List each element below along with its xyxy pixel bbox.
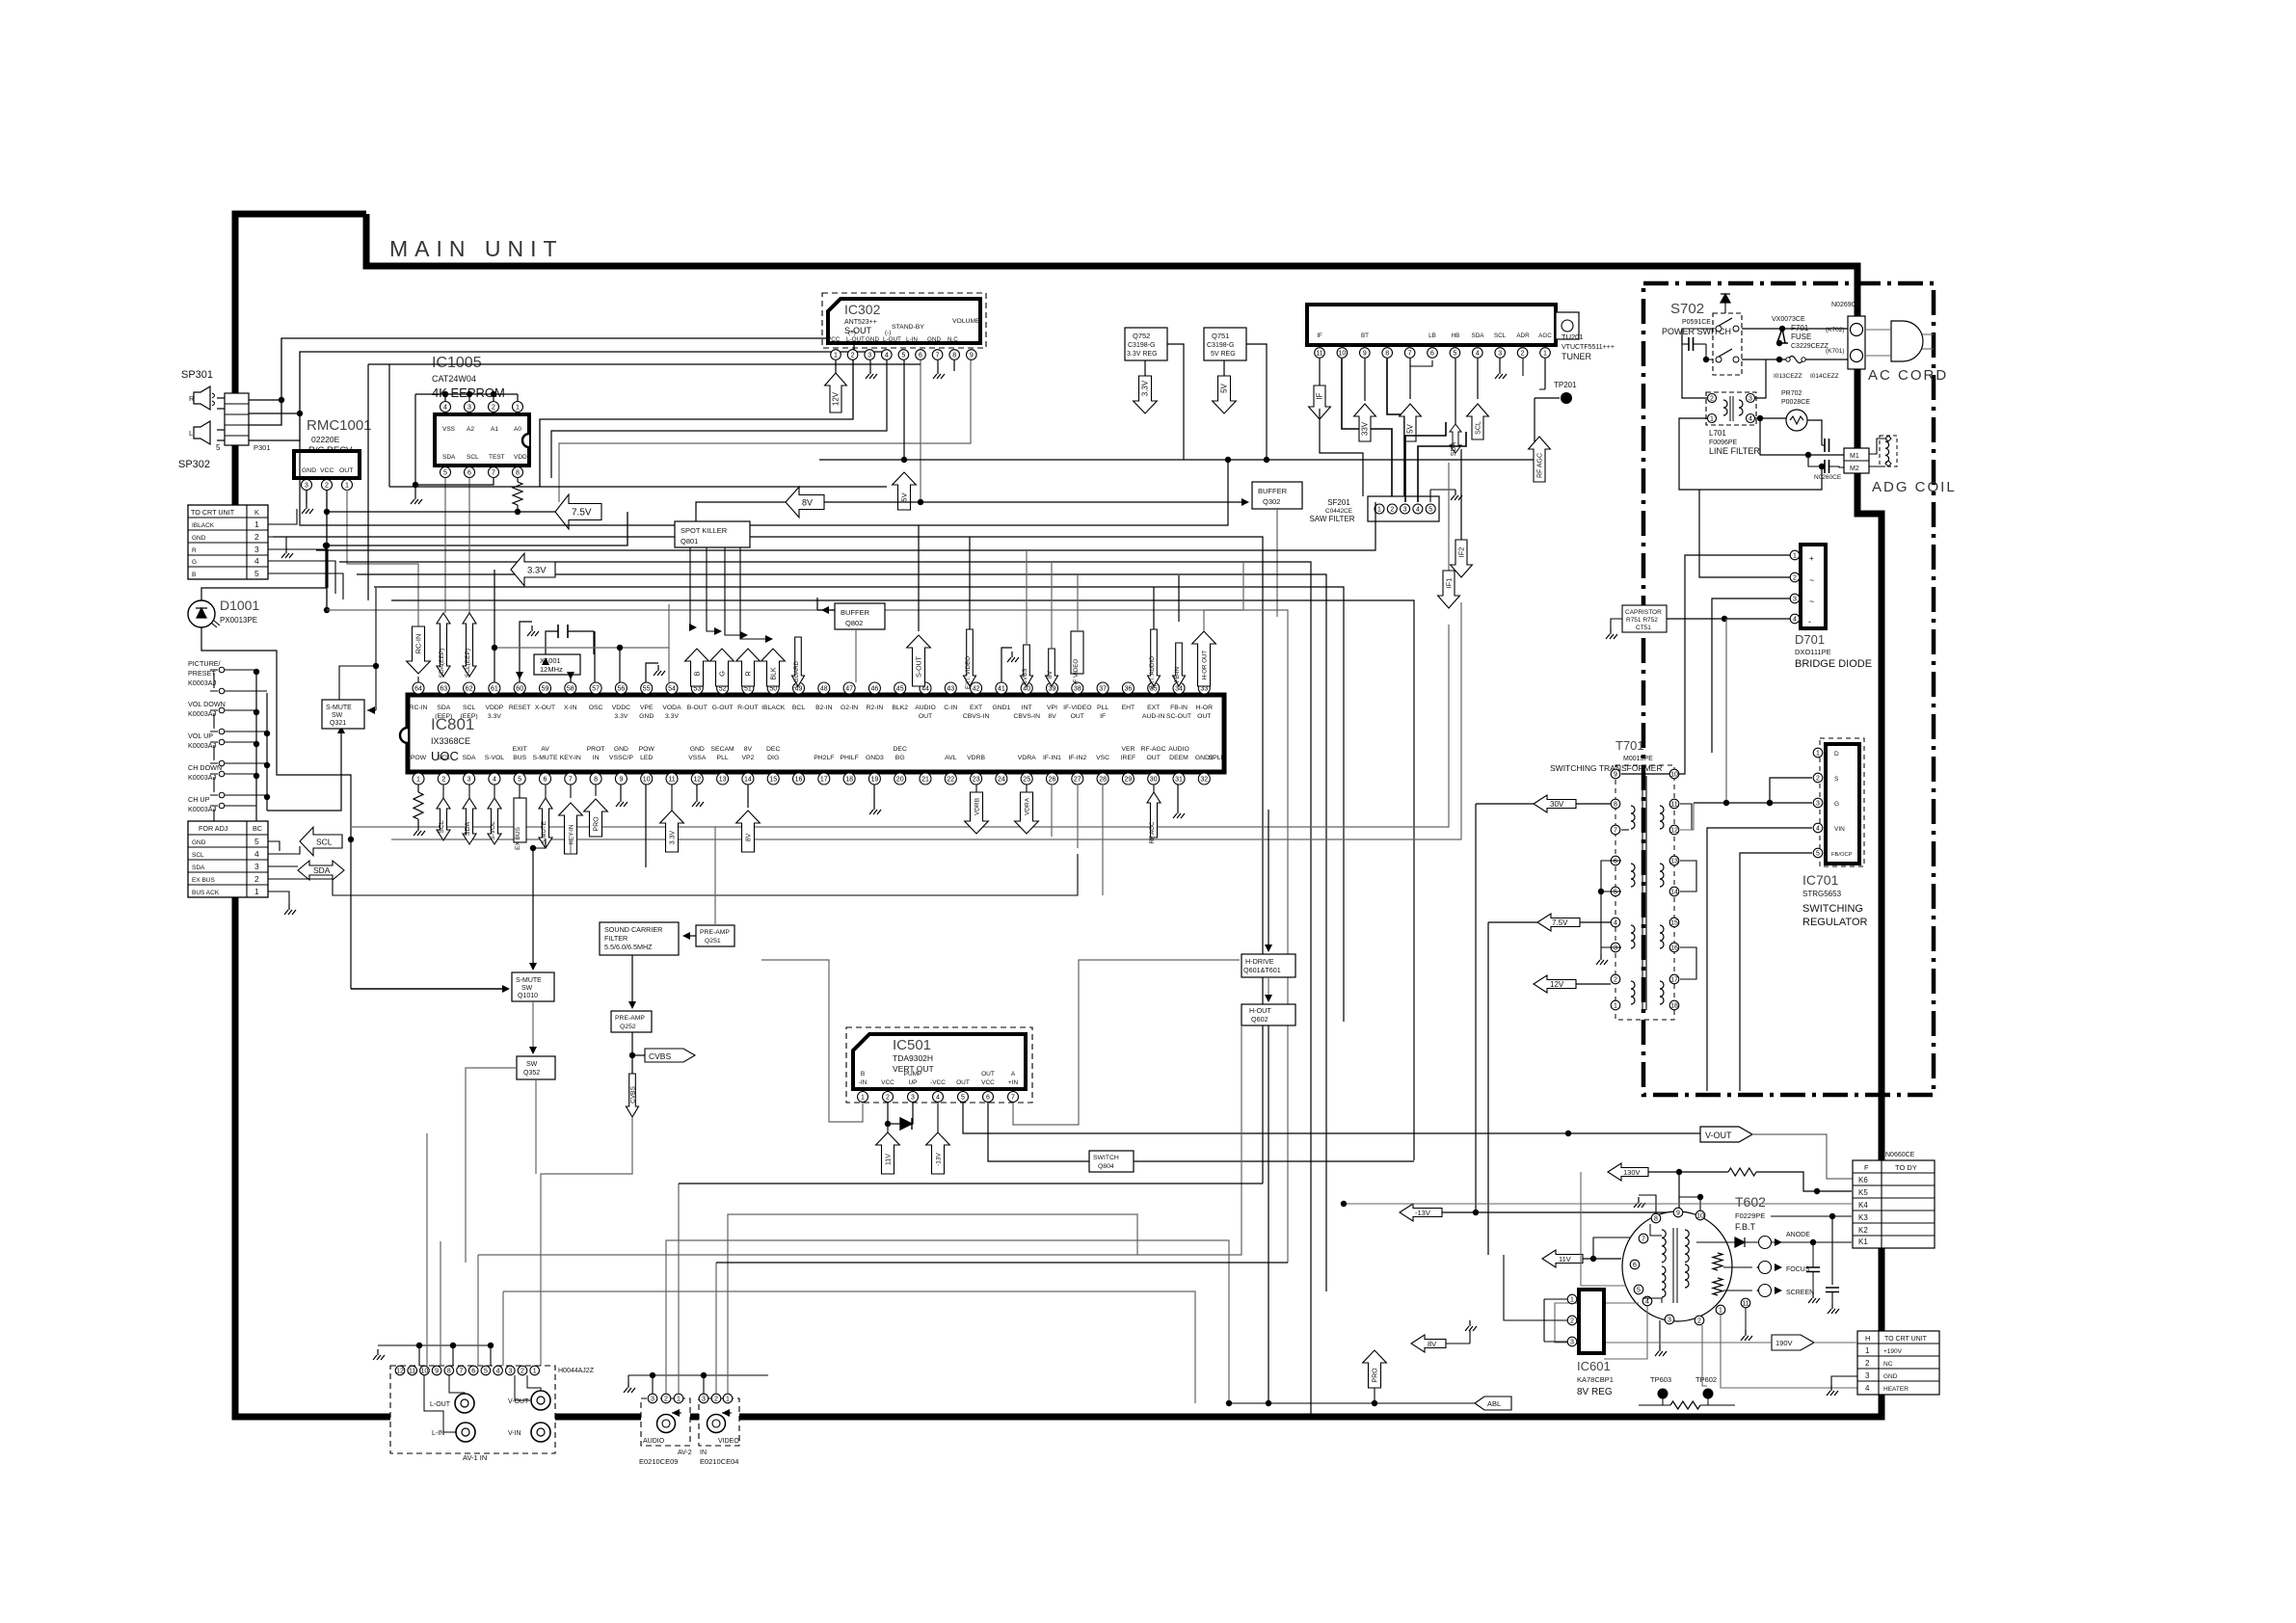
svg-text:FILTER: FILTER	[604, 934, 627, 943]
pin 3 IC1005	[465, 402, 475, 412]
wire ADG coil to M1	[1869, 439, 1885, 454]
wire RESET loop	[520, 622, 532, 682]
wires AV-1 pins to jacks	[424, 1375, 456, 1432]
svg-text:R: R	[192, 547, 197, 554]
svg-text:(EEP): (EEP)	[435, 713, 452, 720]
flag RF AGC tuner	[1529, 437, 1551, 482]
svg-text:KEY-IN: KEY-IN	[569, 824, 575, 844]
svg-text:10: 10	[1670, 771, 1678, 778]
svg-text:CH UP: CH UP	[188, 795, 210, 804]
crystal X1001	[534, 654, 580, 675]
svg-text:5: 5	[484, 1368, 488, 1374]
svg-text:6: 6	[1430, 350, 1434, 357]
svg-text:PR702: PR702	[1781, 390, 1802, 397]
svg-text:TP603: TP603	[1650, 1375, 1671, 1384]
svg-text:45: 45	[896, 685, 904, 692]
svg-text:1: 1	[1543, 350, 1547, 357]
svg-text:IF2: IF2	[1457, 547, 1466, 558]
svg-text:AC CORD: AC CORD	[1868, 367, 1948, 384]
svg-text:4: 4	[1645, 1298, 1649, 1305]
svg-text:ANT523++: ANT523++	[844, 319, 877, 326]
svg-text:5V REG: 5V REG	[1211, 351, 1236, 358]
svg-text:25: 25	[1023, 776, 1030, 783]
svg-text:AGC: AGC	[1538, 333, 1552, 339]
svg-text:D701: D701	[1795, 632, 1825, 647]
wire H-DRIVE to H-OUT	[1268, 977, 1269, 998]
resistor pin1 POW	[417, 785, 419, 792]
svg-text:IBLACK: IBLACK	[192, 522, 215, 529]
svg-text:1: 1	[345, 482, 349, 489]
svg-text:VCC: VCC	[881, 1079, 894, 1086]
IC801 UOC microcontroller body	[408, 695, 1224, 772]
connector K TO CRT UNIT table	[188, 505, 268, 579]
wire IC302 pin9 left drop	[559, 355, 971, 502]
svg-text:2: 2	[664, 1396, 668, 1402]
svg-text:30: 30	[1150, 776, 1158, 783]
svg-text:7.5V: 7.5V	[1552, 918, 1568, 927]
svg-text:VSSC/P: VSSC/P	[609, 755, 633, 761]
svg-text:(EEP): (EEP)	[461, 713, 478, 720]
svg-text:CH DOWN: CH DOWN	[188, 763, 222, 772]
pin 6 IC1005	[465, 467, 475, 478]
svg-text:Q751: Q751	[1212, 332, 1229, 340]
svg-text:ADR: ADR	[1516, 333, 1530, 339]
wire IC1005 pin7 TEST down	[415, 478, 494, 485]
wire bus D y571	[316, 502, 1375, 550]
svg-text:63: 63	[440, 685, 447, 692]
svg-text:IF: IF	[1100, 713, 1106, 720]
svg-text:VDDC: VDDC	[612, 705, 630, 711]
svg-text:SP302: SP302	[178, 459, 210, 470]
svg-text:SCREEN: SCREEN	[1786, 1290, 1814, 1296]
svg-text:12: 12	[693, 776, 701, 783]
svg-text:CVBS: CVBS	[1022, 669, 1028, 685]
wire pin14 8V VP2 down	[747, 785, 749, 808]
flag EXT. AUDIO	[1148, 629, 1161, 686]
svg-text:8V: 8V	[744, 746, 753, 753]
svg-text:A2: A2	[467, 426, 474, 433]
svg-text:R2-IN: R2-IN	[867, 705, 884, 711]
wire 477 rail	[819, 398, 1535, 460]
svg-text:L-OUT: L-OUT	[883, 336, 901, 343]
svg-text:IF: IF	[1316, 392, 1324, 399]
svg-text:3: 3	[467, 776, 471, 783]
svg-text:1: 1	[254, 519, 259, 529]
svg-text:3.3V REG: 3.3V REG	[1127, 351, 1158, 358]
svg-text:EXT. AUDIO: EXT. AUDIO	[1149, 656, 1156, 689]
svg-text:17: 17	[1670, 976, 1678, 983]
flag ABL	[1475, 1397, 1511, 1410]
svg-text:4: 4	[1816, 825, 1820, 832]
svg-text:5.5/6.0/6.5MHZ: 5.5/6.0/6.5MHZ	[604, 943, 653, 951]
svg-text:5: 5	[216, 443, 221, 452]
wire into Q1010	[351, 988, 505, 990]
svg-text:NC: NC	[1883, 1361, 1893, 1368]
svg-text:17: 17	[820, 776, 828, 783]
pin 5 IC302	[898, 350, 909, 360]
svg-text:(K701): (K701)	[1826, 348, 1845, 355]
wire D1001 top to VCC bus	[201, 545, 326, 600]
flag 8V up	[736, 811, 761, 852]
ground pin12 VSSA	[696, 785, 698, 796]
svg-text:6: 6	[544, 776, 547, 783]
jack V-OUT	[531, 1391, 550, 1410]
svg-text:IC1005: IC1005	[432, 355, 482, 371]
svg-text:B: B	[861, 1071, 865, 1078]
flag S-VOL below	[494, 785, 495, 798]
wire 7.5V rail	[327, 511, 555, 513]
svg-text:+IN: +IN	[1008, 1079, 1019, 1086]
wire Q802 down	[855, 629, 857, 682]
flag S-OUT	[907, 635, 931, 686]
svg-text:3.3V: 3.3V	[670, 830, 677, 844]
svg-text:LINE FILTER: LINE FILTER	[1709, 446, 1760, 456]
ground bus AV-1	[378, 1344, 491, 1346]
svg-text:16: 16	[1670, 945, 1678, 951]
svg-text:1: 1	[726, 1396, 730, 1402]
svg-text:11: 11	[1670, 801, 1677, 808]
svg-text:1: 1	[861, 1094, 865, 1101]
wire CVBS to AV nodes	[541, 1117, 632, 1366]
svg-text:BUFFER: BUFFER	[841, 608, 870, 617]
wire PR702 right	[1807, 420, 1822, 445]
ground IC302 pin7	[937, 360, 939, 368]
svg-text:2: 2	[254, 532, 259, 542]
svg-text:FB-IN: FB-IN	[1174, 667, 1181, 682]
svg-text:Q251: Q251	[705, 938, 721, 945]
svg-text:10: 10	[1696, 1212, 1704, 1219]
svg-text:2: 2	[1570, 1317, 1574, 1324]
svg-text:48: 48	[820, 685, 828, 692]
svg-text:8: 8	[447, 1368, 451, 1374]
LED D1001	[188, 600, 215, 627]
svg-text:N0260CE: N0260CE	[1814, 474, 1842, 481]
wire V-OUT to K6	[1752, 1134, 1853, 1179]
svg-text:TUNER: TUNER	[1562, 352, 1591, 361]
svg-text:SW: SW	[526, 1061, 538, 1068]
svg-text:8: 8	[516, 469, 520, 476]
caps at ADG	[1825, 439, 1829, 452]
svg-text:IX3368CE: IX3368CE	[431, 736, 470, 746]
svg-text:POW: POW	[411, 755, 427, 761]
svg-text:K6: K6	[1858, 1176, 1868, 1184]
svg-text:K2: K2	[1858, 1226, 1868, 1235]
svg-text:PH2LF: PH2LF	[814, 755, 834, 761]
svg-text:3.3V: 3.3V	[488, 713, 501, 720]
svg-text:OUT: OUT	[1147, 755, 1161, 761]
connector M1 M2 ADG	[1844, 448, 1869, 473]
wire y1228 to right	[679, 1183, 1263, 1184]
svg-text:SCL: SCL	[463, 705, 475, 711]
svg-text:CBVS-IN: CBVS-IN	[1013, 713, 1040, 720]
pin 10 tuner	[1337, 348, 1348, 359]
wire P301 pair R	[249, 400, 281, 425]
flag SDA below	[468, 785, 470, 798]
svg-text:IF-IN2: IF-IN2	[1068, 755, 1086, 761]
wire BC row1 BUS ACK	[268, 891, 289, 904]
svg-text:VSS: VSS	[442, 426, 456, 433]
wire Q321 top	[339, 588, 376, 700]
svg-text:DEEM: DEEM	[1169, 755, 1188, 761]
svg-text:R-OUT: R-OUT	[737, 705, 759, 711]
pin 4 SF201	[1413, 504, 1423, 514]
flag 12V into IC302 pin1	[835, 360, 837, 374]
svg-text:7.5V: 7.5V	[572, 507, 592, 518]
wire PRO to ABL line	[1374, 1388, 1375, 1403]
pin 1 D701	[1790, 550, 1800, 560]
svg-text:Q804: Q804	[1098, 1163, 1114, 1170]
svg-text:5: 5	[1428, 506, 1432, 513]
wire switch to AC live	[1742, 328, 1849, 330]
svg-text:32: 32	[1200, 776, 1208, 783]
svg-text:PRE-AMP: PRE-AMP	[615, 1015, 645, 1022]
pin 1 SF201	[1375, 504, 1384, 514]
flag EXT. VIDEO	[964, 629, 976, 686]
wire capristor node to IC701 G line	[1725, 619, 1727, 803]
pin 8 IC302	[949, 350, 960, 360]
svg-text:38: 38	[1074, 685, 1081, 692]
svg-text:3: 3	[1403, 506, 1407, 513]
wire lower AC path	[1742, 359, 1766, 360]
svg-text:BT: BT	[1361, 333, 1369, 339]
svg-text:55: 55	[643, 685, 651, 692]
svg-text:8V REG: 8V REG	[1577, 1387, 1613, 1397]
flag IF2 down	[1460, 449, 1462, 540]
SAW filter SF201	[1368, 496, 1439, 521]
wire Q804 right to -13V net	[1134, 1160, 1414, 1162]
wire IC1005 top pins common rail	[444, 394, 446, 401]
wire bus A y505	[388, 364, 390, 487]
svg-text:POW: POW	[639, 746, 655, 753]
pin 1 IC501	[858, 1092, 868, 1103]
bridge diode D701	[1801, 545, 1826, 628]
pin 1 IC1005	[513, 402, 523, 412]
svg-text:VDRA: VDRA	[1025, 797, 1031, 815]
switch S-MUTE SW Q321	[322, 700, 364, 729]
svg-text:CAPRISTOR: CAPRISTOR	[1625, 609, 1662, 616]
svg-text:M0015PE: M0015PE	[1623, 756, 1653, 762]
wire FBT pin4 down	[1604, 1306, 1647, 1359]
wire bus F y596	[357, 574, 1326, 1291]
svg-text:2: 2	[325, 482, 329, 489]
svg-text:UP: UP	[908, 1079, 917, 1086]
svg-text:DEC: DEC	[766, 746, 780, 753]
svg-text:BLK2: BLK2	[892, 705, 908, 711]
pin 8 IC1005	[513, 467, 523, 478]
flag SDA to BC3	[268, 865, 298, 867]
svg-text:S-VOL: S-VOL	[490, 821, 496, 840]
pin 3 IC701	[1813, 798, 1823, 808]
pin 1 RMC1001	[342, 480, 353, 491]
wire Q352 down-left	[466, 1068, 517, 1263]
switch S-MUTE SW Q1010	[512, 972, 554, 1001]
wire BC row5 gnd	[268, 841, 280, 851]
svg-text:7: 7	[1642, 1236, 1645, 1242]
svg-text:VCC: VCC	[981, 1079, 995, 1086]
svg-text:4: 4	[1476, 350, 1480, 357]
wire T701 pin7-6-5 tap	[1621, 829, 1629, 831]
wire Q251 to filter	[684, 935, 696, 937]
wire speaker R to P301	[217, 397, 225, 399]
svg-text:7: 7	[569, 776, 573, 783]
svg-text:3: 3	[1570, 1339, 1574, 1345]
svg-text:LED: LED	[640, 755, 653, 761]
svg-text:3: 3	[467, 404, 471, 411]
svg-text:TDA9302H: TDA9302H	[893, 1053, 933, 1063]
svg-text:K5: K5	[1858, 1188, 1868, 1197]
wire button bus bottom contacts	[266, 693, 268, 811]
wire FBT pin10 junction	[1679, 1197, 1700, 1211]
flag EX BUS below	[519, 785, 521, 798]
svg-text:TEST: TEST	[489, 454, 505, 461]
svg-text:P0591CE: P0591CE	[1682, 319, 1711, 326]
svg-text:1: 1	[416, 776, 420, 783]
svg-text:11: 11	[1742, 1300, 1749, 1307]
pin 4 IC1005	[441, 402, 451, 412]
wire bus G y609	[374, 587, 1344, 1022]
svg-text:1: 1	[834, 352, 838, 359]
wire av1 riser horiz 1340	[503, 1291, 1195, 1403]
svg-text:8V: 8V	[1047, 670, 1054, 678]
wire IF-IN2 down	[1077, 785, 1079, 848]
svg-text:FB-IN: FB-IN	[1170, 705, 1188, 711]
svg-text:VIDEO: VIDEO	[718, 1438, 739, 1445]
IC501 vertical output body	[853, 1034, 1026, 1089]
flag VDRB down	[975, 785, 977, 792]
svg-text:GND: GND	[639, 713, 654, 720]
svg-text:GND: GND	[866, 336, 879, 343]
svg-text:IF-IN1: IF-IN1	[1043, 755, 1061, 761]
svg-text:1: 1	[677, 1396, 681, 1402]
flag CVBS vertical below Q352	[535, 1079, 537, 1174]
svg-text:3: 3	[508, 1368, 512, 1374]
diode protector	[1776, 329, 1788, 343]
svg-text:22: 22	[947, 776, 954, 783]
ground FBT pin11	[1745, 1308, 1747, 1330]
flag 12V T701	[1534, 975, 1576, 993]
pin 7 tuner	[1404, 348, 1415, 359]
ground tuner pin3	[1499, 359, 1501, 368]
svg-text:2: 2	[1614, 976, 1617, 983]
svg-text:PUMP: PUMP	[904, 1071, 922, 1078]
wire FBT pin5 left	[1581, 1172, 1626, 1286]
AV-1 pin row	[395, 1366, 405, 1375]
svg-text:S-OUT: S-OUT	[917, 655, 923, 678]
regulator Q751 5V	[1204, 328, 1246, 360]
svg-text:ADG COIL: ADG COIL	[1872, 479, 1957, 495]
wire Q252 down to CVBS node	[631, 1032, 633, 1055]
svg-text:SCL: SCL	[438, 755, 450, 761]
svg-text:S-MUTE: S-MUTE	[326, 705, 352, 711]
flag SDA(EEP)	[437, 677, 443, 686]
flag S-MUTE below	[545, 785, 547, 798]
T602 internal wiring	[1650, 1224, 1662, 1236]
svg-text:42: 42	[973, 685, 980, 692]
svg-text:M2: M2	[1850, 466, 1859, 472]
svg-text:EXT: EXT	[1147, 705, 1160, 711]
svg-text:3: 3	[254, 545, 259, 554]
svg-text:RC-IN: RC-IN	[410, 705, 428, 711]
svg-text:OUT: OUT	[1071, 713, 1084, 720]
svg-text:AVL: AVL	[945, 755, 957, 761]
wire IC1005 pin5 SDA down	[444, 478, 446, 613]
svg-text:VOL DOWN: VOL DOWN	[188, 700, 226, 708]
wire spot killer to 8V rail	[696, 502, 786, 521]
svg-text:S-MUTE: S-MUTE	[541, 821, 547, 844]
capacitor X1001	[558, 625, 568, 638]
svg-text:AUD-IN: AUD-IN	[1142, 713, 1165, 720]
svg-text:TO DY: TO DY	[1895, 1163, 1917, 1172]
svg-text:IN: IN	[700, 1450, 707, 1456]
wire IC501 pin1 left	[761, 960, 863, 1122]
wire IC601 left rail	[1543, 1299, 1545, 1342]
flag 8V bottom	[1411, 1335, 1446, 1352]
connector AV-2 AUDIO dashed box	[641, 1398, 690, 1446]
connector AV-2 VIDEO dashed box	[699, 1398, 739, 1446]
pin 4 D701	[1790, 614, 1800, 624]
svg-text:2: 2	[441, 776, 445, 783]
wire IC302 pin8 stub	[953, 360, 955, 371]
svg-text:6: 6	[467, 469, 471, 476]
svg-text:PRE-AMP: PRE-AMP	[700, 929, 730, 936]
pin 2 IC302	[847, 350, 858, 360]
flag -13V under IC501	[937, 1103, 939, 1137]
wire SF201 pin4 route	[1418, 432, 1466, 502]
pin 7 IC501	[1008, 1092, 1019, 1103]
svg-text:VDRA: VDRA	[1018, 755, 1036, 761]
svg-text:19: 19	[871, 776, 879, 783]
pin 4 IC501	[933, 1092, 944, 1103]
svg-text:11: 11	[668, 776, 675, 783]
flag RF AGC below	[1153, 785, 1155, 792]
diode above S702	[1721, 294, 1730, 303]
ground RMC1001 pin3	[306, 490, 307, 503]
svg-text:VPE: VPE	[640, 705, 654, 711]
svg-text:SCL: SCL	[1494, 333, 1507, 339]
svg-text:SDA: SDA	[192, 865, 205, 871]
wire H-OR OUT arrow feed	[1204, 563, 1243, 631]
svg-text:2: 2	[1793, 574, 1797, 581]
svg-text:IF1: IF1	[1445, 578, 1454, 589]
svg-text:130V: 130V	[1623, 1168, 1641, 1177]
svg-text:SCL(EEP): SCL(EEP)	[465, 649, 471, 678]
wire 30V to bottom net	[1476, 803, 1534, 805]
svg-text:IC601: IC601	[1577, 1359, 1611, 1373]
flag SCL(EEP)	[463, 613, 476, 677]
svg-text:4: 4	[254, 849, 259, 859]
pin 5 tuner	[1450, 348, 1460, 359]
wire VPE gnd	[646, 663, 658, 682]
svg-text:18: 18	[845, 776, 853, 783]
svg-text:X-IN: X-IN	[564, 705, 577, 711]
svg-text:FOR ADJ: FOR ADJ	[199, 824, 228, 833]
svg-text:SC-OUT: SC-OUT	[1166, 713, 1191, 720]
svg-text:4: 4	[1614, 919, 1617, 926]
caps at FBT right	[1806, 1267, 1820, 1272]
wire FB-IN arrow feed	[1178, 575, 1180, 622]
pin 5 IC501	[958, 1092, 969, 1103]
svg-text:3.3V: 3.3V	[665, 713, 679, 720]
pin 6 IC501	[983, 1092, 994, 1103]
svg-text:CT51: CT51	[1636, 625, 1651, 631]
svg-text:TU201: TU201	[1562, 333, 1584, 341]
line filter L701	[1706, 392, 1756, 425]
svg-text:2: 2	[886, 1094, 890, 1101]
svg-text:7: 7	[492, 469, 495, 476]
svg-text:28: 28	[1099, 776, 1107, 783]
svg-text:OUT: OUT	[956, 1079, 970, 1086]
T602 windings	[1662, 1230, 1666, 1263]
